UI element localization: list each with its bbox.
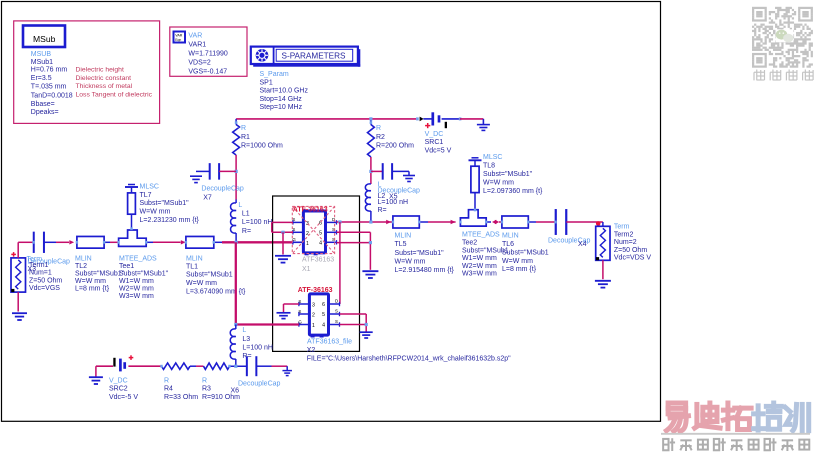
svg-text:W2=W mm: W2=W mm <box>462 263 497 270</box>
svg-text:FILE="C:\Users\Harsheth\RFPCW2: FILE="C:\Users\Harsheth\RFPCW2014_wrk_ch… <box>307 355 511 362</box>
svg-text:MSub: MSub <box>33 34 56 44</box>
svg-text:R=: R= <box>378 207 387 214</box>
svg-text:L=8 mm {t}: L=8 mm {t} <box>75 285 110 292</box>
svg-text:MLIN: MLIN <box>186 255 203 262</box>
svg-text:R=910 Ohm: R=910 Ohm <box>202 394 240 401</box>
svg-text:Thickness of metal: Thickness of metal <box>76 83 133 90</box>
svg-text:Loss Tangent of dielectric: Loss Tangent of dielectric <box>76 91 153 98</box>
svg-text:6: 6 <box>322 302 325 308</box>
svg-text:DecoupleCap: DecoupleCap <box>201 186 244 193</box>
svg-text:Subst="MSub1: Subst="MSub1 <box>502 249 549 256</box>
svg-text:TL6: TL6 <box>502 241 514 248</box>
svg-text:Num=1: Num=1 <box>29 270 52 277</box>
svg-text:Subst="MSub1": Subst="MSub1" <box>395 250 445 257</box>
svg-text:H=0.76 mm: H=0.76 mm <box>31 67 68 74</box>
svg-text:Term2: Term2 <box>614 231 634 238</box>
svg-text:Vdc=VGS: Vdc=VGS <box>29 285 60 292</box>
svg-text:X7: X7 <box>203 195 212 202</box>
svg-text:L=8 mm {t}: L=8 mm {t} <box>502 266 537 273</box>
svg-text:Subst="MSub1": Subst="MSub1" <box>75 270 125 277</box>
svg-text:ATF36163_file: ATF36163_file <box>307 339 352 346</box>
svg-text:R: R <box>164 378 169 385</box>
svg-text:R1: R1 <box>241 134 250 141</box>
svg-text:ATF36163: ATF36163 <box>302 256 334 263</box>
svg-text:Z=50 Ohm: Z=50 Ohm <box>29 277 62 284</box>
svg-text:L=100 nH: L=100 nH <box>378 199 409 206</box>
svg-text:V_DC: V_DC <box>109 378 128 385</box>
svg-text:MLSC: MLSC <box>140 183 159 190</box>
svg-text:R2: R2 <box>376 134 385 141</box>
svg-text:DecoupleCap: DecoupleCap <box>238 381 281 388</box>
svg-text:MTEE_ADS: MTEE_ADS <box>119 255 157 262</box>
svg-text:4: 4 <box>322 323 325 329</box>
svg-text:Vdc=-5 V: Vdc=-5 V <box>109 394 138 401</box>
svg-text:W=W mm: W=W mm <box>395 258 426 265</box>
svg-text:L=3.674090 mm {t}: L=3.674090 mm {t} <box>186 289 246 296</box>
svg-text:TL5: TL5 <box>395 241 407 248</box>
svg-text:ATF-36163: ATF-36163 <box>293 207 328 214</box>
svg-text:S_Param: S_Param <box>260 71 289 78</box>
svg-text:S: S <box>298 299 301 304</box>
svg-text:W=W mm: W=W mm <box>140 209 171 216</box>
svg-text:L=2.097360 mm {t}: L=2.097360 mm {t} <box>483 188 543 195</box>
svg-text:SRC1: SRC1 <box>425 139 444 146</box>
svg-text:S-PARAMETERS: S-PARAMETERS <box>282 52 347 61</box>
svg-text:R=: R= <box>242 228 251 235</box>
svg-text:R: R <box>241 125 246 132</box>
svg-text:VAR1: VAR1 <box>188 41 206 48</box>
svg-text:W=1.711990: W=1.711990 <box>188 50 227 57</box>
svg-text:W3=W mm: W3=W mm <box>119 293 154 300</box>
svg-text:Subst="MSub1": Subst="MSub1" <box>140 200 190 207</box>
svg-text:W1=W mm: W1=W mm <box>462 255 497 262</box>
svg-text:L1: L1 <box>242 211 250 218</box>
svg-text:Start=10.0 GHz: Start=10.0 GHz <box>260 88 309 95</box>
svg-text:Z=50 Ohm: Z=50 Ohm <box>614 247 647 254</box>
svg-text:Er=3.5: Er=3.5 <box>31 75 52 82</box>
svg-text:MLSC: MLSC <box>483 154 502 161</box>
svg-text:MSUB: MSUB <box>31 51 52 58</box>
svg-text:SRC2: SRC2 <box>109 386 128 393</box>
svg-text:Vdc=VDS V: Vdc=VDS V <box>614 255 651 262</box>
svg-text:1: 1 <box>306 241 309 247</box>
svg-text:R=200 Ohm: R=200 Ohm <box>376 143 414 150</box>
svg-text:Bbase=: Bbase= <box>31 101 55 108</box>
svg-text:R: R <box>202 378 207 385</box>
svg-text:5: 5 <box>322 312 325 318</box>
svg-text:Term: Term <box>614 224 630 231</box>
svg-text:D: D <box>335 299 338 304</box>
svg-text:W1=W mm: W1=W mm <box>119 278 154 285</box>
svg-text:2: 2 <box>306 231 309 237</box>
svg-text:L=100 nH: L=100 nH <box>242 219 273 226</box>
svg-text:W3=W mm: W3=W mm <box>462 271 497 278</box>
svg-text:TL1: TL1 <box>186 263 198 270</box>
svg-text:X4: X4 <box>578 241 587 248</box>
svg-text:W=W mm: W=W mm <box>483 179 514 186</box>
svg-text:VDS=2: VDS=2 <box>188 59 210 66</box>
svg-text:S: S <box>335 319 338 324</box>
svg-text:X1: X1 <box>302 266 311 273</box>
svg-text:MLIN: MLIN <box>502 233 519 240</box>
svg-text:R: R <box>376 125 381 132</box>
svg-text:X2: X2 <box>307 347 316 354</box>
svg-text:MLIN: MLIN <box>75 255 92 262</box>
svg-text:W=W mm: W=W mm <box>75 278 106 285</box>
svg-text:Stop=14 GHz: Stop=14 GHz <box>260 96 303 103</box>
svg-text:R=1000 Ohm: R=1000 Ohm <box>241 143 283 150</box>
svg-text:Dielectric constant: Dielectric constant <box>76 75 132 82</box>
svg-text:VGS=-0.147: VGS=-0.147 <box>188 68 227 75</box>
svg-text:5: 5 <box>319 231 322 237</box>
svg-text:Dielectric height: Dielectric height <box>76 66 124 73</box>
svg-text:3: 3 <box>312 303 315 309</box>
svg-text:G: G <box>292 237 296 242</box>
svg-text:Num=2: Num=2 <box>614 239 637 246</box>
svg-text:R3: R3 <box>202 386 211 393</box>
svg-text:Tee1: Tee1 <box>119 263 134 270</box>
svg-text:T=.035 mm: T=.035 mm <box>31 84 67 91</box>
svg-text:4: 4 <box>319 241 322 247</box>
svg-text:SP1: SP1 <box>260 79 273 86</box>
svg-text:ATF-36163: ATF-36163 <box>298 287 333 294</box>
svg-text:L: L <box>242 327 246 334</box>
svg-text:MTEE_ADS: MTEE_ADS <box>462 232 500 239</box>
svg-text:S: S <box>298 309 301 314</box>
svg-text:Subst="MSub1": Subst="MSub1" <box>119 270 169 277</box>
svg-text:V_DC: V_DC <box>425 131 444 138</box>
svg-text:L=100 nH: L=100 nH <box>242 344 273 351</box>
svg-text:TL7: TL7 <box>140 192 152 199</box>
svg-text:W=W mm: W=W mm <box>502 258 533 265</box>
svg-text:L=2.231230 mm {t}: L=2.231230 mm {t} <box>140 217 200 224</box>
svg-text:TL2: TL2 <box>75 263 87 270</box>
svg-text:R4: R4 <box>164 386 173 393</box>
svg-text:X6: X6 <box>231 388 240 395</box>
svg-text:G: G <box>298 319 302 324</box>
svg-text:Tee2: Tee2 <box>462 240 477 247</box>
svg-text:S: S <box>292 227 295 232</box>
svg-text:S: S <box>335 309 338 314</box>
svg-text:Subst="MSub1: Subst="MSub1 <box>186 272 233 279</box>
svg-text:1: 1 <box>312 323 315 329</box>
svg-text:TanD=0.0018: TanD=0.0018 <box>31 93 73 100</box>
svg-text:MLIN: MLIN <box>395 233 412 240</box>
svg-text:MSub1: MSub1 <box>31 59 53 66</box>
svg-text:L=2.915480 mm {t}: L=2.915480 mm {t} <box>395 267 455 274</box>
svg-text:VAR: VAR <box>188 32 202 39</box>
svg-text:S: S <box>292 217 295 222</box>
svg-text:Vdc=5 V: Vdc=5 V <box>425 147 452 154</box>
svg-text:2: 2 <box>312 313 315 319</box>
svg-text:Step=10 MHz: Step=10 MHz <box>260 104 303 111</box>
svg-text:L3: L3 <box>242 336 250 343</box>
svg-text:W=W mm: W=W mm <box>186 280 217 287</box>
svg-text:Dpeaks=: Dpeaks= <box>31 109 59 116</box>
svg-text:TL8: TL8 <box>483 163 495 170</box>
svg-text:Subst="MSub1": Subst="MSub1" <box>483 171 533 178</box>
svg-text:R=33 Ohm: R=33 Ohm <box>164 394 198 401</box>
svg-text:Eqn: Eqn <box>175 38 181 42</box>
svg-text:W2=W mm: W2=W mm <box>119 285 154 292</box>
svg-text:L: L <box>238 202 242 209</box>
